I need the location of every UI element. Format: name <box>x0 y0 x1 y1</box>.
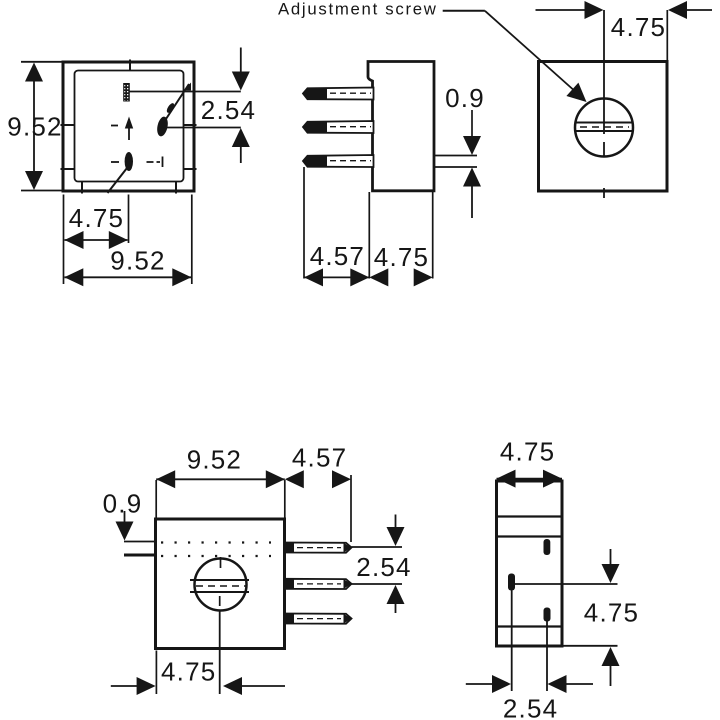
dimension 4.75 bottom: left arrow stem <box>111 685 138 687</box>
dimension 4.57: arrowhead right <box>332 470 351 488</box>
pin middle (black) <box>508 574 515 591</box>
leader line from slot <box>130 91 241 93</box>
dimension 4.75 top-right: left arrow stem <box>536 9 587 11</box>
dimension 0.9: lower stem <box>471 186 473 218</box>
dimension 2.54 bottom: right arrowhead <box>548 675 567 693</box>
pin 1 dashed centerline <box>330 92 371 94</box>
mold tick left edge upper <box>61 124 76 126</box>
pin 1 dashes <box>297 547 341 549</box>
svg-text:4.75: 4.75 <box>69 203 124 233</box>
pin 3 outline <box>303 155 374 167</box>
svg-text:2.54: 2.54 <box>503 694 558 720</box>
dimension 4.75 top-right: right arrow stem <box>686 9 712 11</box>
dimension 9.52 left: arrowhead down <box>25 171 43 190</box>
pin 2 black tip <box>303 122 327 133</box>
mold tick right edge upper <box>183 124 197 126</box>
adjustment screw circle <box>575 99 633 157</box>
dimension 2.54 right: lower line <box>352 583 403 585</box>
dimension 4.75 bottom (top view): left extension <box>63 195 65 285</box>
top view inner body outline <box>75 71 184 182</box>
wiper arm diagonal <box>164 84 189 122</box>
internal line top band 2 <box>497 535 563 537</box>
dimension 2.54 bottom: mid-pin extension <box>511 591 513 692</box>
dimension 9.52 bottom: right extension <box>191 195 193 285</box>
internal line top band 1 <box>497 515 563 517</box>
pin 2 dashes <box>297 583 341 585</box>
dimension 4.57: dim line <box>304 276 369 278</box>
svg-text:4.75: 4.75 <box>374 242 429 272</box>
dimension 2.54 bottom: left arrowhead <box>492 675 511 693</box>
dimension 4.75: arrowhead right <box>414 268 433 286</box>
dimension 2.54 right: down stem <box>395 515 397 531</box>
svg-text:9.52: 9.52 <box>7 112 62 142</box>
dimension 4.57: arrowhead left <box>304 268 323 286</box>
svg-text:9.52: 9.52 <box>110 246 165 276</box>
dimension 2.54: lower stem <box>240 146 242 163</box>
dimension 0.9 right: upper pin line <box>434 155 477 157</box>
dimension 2.54: arrowhead down <box>232 72 250 91</box>
pin 3 black tip <box>344 614 352 624</box>
hidden pin dotted row lower <box>161 555 271 557</box>
middle pin leader line <box>512 583 618 585</box>
pin 3 black tip <box>303 156 327 167</box>
svg-text:4.57: 4.57 <box>310 241 365 271</box>
pin 1 black tip <box>344 543 352 553</box>
center mark stem <box>128 129 130 141</box>
adjustment screw leader arrowhead <box>566 83 586 102</box>
svg-text:4.75: 4.75 <box>584 598 639 628</box>
dimension 4.75: arrowhead left <box>65 231 84 249</box>
dash right of bottom blob <box>147 161 161 163</box>
svg-text:4.57: 4.57 <box>292 443 347 473</box>
dimension 0.9 bottom-left: stem <box>124 511 126 524</box>
dimension 4.75 right: up stem <box>610 665 612 686</box>
left tab lower line <box>124 554 156 557</box>
pin 1 black tip <box>303 88 327 99</box>
pin 2 black root <box>285 579 294 589</box>
dimension 4.75 bottom: left arrowhead <box>137 677 156 695</box>
centerline dash above circle <box>220 557 222 568</box>
dimension 9.52: arrowhead left <box>156 470 175 488</box>
bottom-right body outline <box>497 481 563 646</box>
bottom-left body outline <box>156 519 285 649</box>
dimension 9.52 left: top gauge line <box>21 61 66 63</box>
body-left extension <box>368 192 370 279</box>
screw head view body <box>539 62 668 192</box>
internal line bottom band <box>497 625 563 627</box>
mold tick top edge <box>129 60 131 72</box>
left tab upper line <box>124 541 156 543</box>
dimension 4.75 bottom: right arrowhead <box>223 677 242 695</box>
pin 3 dashed centerline <box>330 160 371 162</box>
pin 2 outline <box>303 121 374 133</box>
pin 3 right outline <box>285 614 352 624</box>
center mark left dash <box>111 125 118 127</box>
mid extension <box>284 480 286 518</box>
body-right extension <box>432 192 434 279</box>
dimension 2.54: arrowhead up <box>232 128 250 147</box>
dimension 2.54 right: arrowhead up <box>387 585 405 604</box>
dimension 4.75: center extension <box>128 195 130 244</box>
svg-text:4.75: 4.75 <box>161 657 216 687</box>
dimension 2.54 bottom: right arrow stem <box>566 683 594 685</box>
pin 2 dashed centerline <box>330 126 371 128</box>
terminal blob bottom <box>125 152 133 171</box>
screw slot upper <box>190 579 249 581</box>
pin 2 black tip <box>344 579 352 589</box>
vertical centerline dash 2 <box>603 188 605 198</box>
adjustment screw leader diagonal <box>485 11 577 93</box>
wiper diagonal bottom <box>108 168 128 193</box>
dimension 4.75 top: dim line <box>497 478 563 480</box>
pin 3 black root <box>285 614 294 624</box>
dimension 9.52 bottom: arrowhead left <box>64 268 83 286</box>
dimension 4.75 bottom: right arrow stem <box>241 685 285 687</box>
dimension 4.75: arrowhead left <box>369 268 388 286</box>
mold tick left edge lower <box>61 168 76 170</box>
center mark up arrow <box>125 117 133 129</box>
dimension 2.54 bottom: left arrow stem <box>466 683 494 685</box>
dimension 0.9: upper stem <box>471 110 473 138</box>
dimension 9.52: arrowhead right <box>266 470 285 488</box>
dimension 9.52 bottom: dim line <box>65 276 192 278</box>
svg-text:9.52: 9.52 <box>187 445 242 475</box>
pin 2 right outline <box>285 579 352 589</box>
dash left of bottom blob <box>111 161 119 163</box>
label leader horizontal <box>443 10 485 12</box>
dimension 0.9 right: lower pin line <box>434 166 477 168</box>
svg-text:0.9: 0.9 <box>445 83 485 113</box>
dimension 4.75 bottom: left extension <box>155 651 157 695</box>
vertical centerline dash 1 <box>603 142 605 157</box>
side view body outline <box>368 62 434 191</box>
dimension 9.52: dim line <box>156 478 285 480</box>
dimension 4.75 right: down stem <box>610 549 612 566</box>
bottom edge extension right <box>562 645 618 647</box>
hidden pin dotted row upper <box>161 541 271 543</box>
right extension <box>350 475 352 542</box>
dimension 9.52 left: arrowhead up <box>25 63 43 82</box>
svg-text:2.54: 2.54 <box>356 552 411 582</box>
dimension 4.75 top-right: right extension <box>666 10 668 61</box>
leader line from terminal blob <box>166 127 241 129</box>
dimension 4.75 top-right: left arrowhead <box>585 1 604 19</box>
dimension 4.57/4.75 bottom: pin-tip extension <box>303 167 305 279</box>
screw circle bottom-left view <box>195 559 247 611</box>
mold tick bottom edge right <box>175 181 177 194</box>
dimension 2.54 right: up stem <box>395 603 397 613</box>
svg-text:4.75: 4.75 <box>500 437 555 467</box>
mold tick right edge lower <box>183 168 197 170</box>
svg-text:Adjustment screw: Adjustment screw <box>278 0 438 19</box>
dimension 9.52 left: bottom gauge line <box>21 190 66 192</box>
cross tick right <box>162 157 164 168</box>
dimension 9.52/4.57 top: left extension <box>155 480 157 518</box>
dimension 2.54 right: upper line <box>352 546 403 548</box>
pin top (black) <box>544 539 551 555</box>
mold tick bottom edge left <box>81 181 83 194</box>
dimension 4.75: arrowhead right <box>109 231 128 249</box>
screw slot lower <box>190 591 249 593</box>
dimension 2.54 bottom: bottom-pin extension <box>546 621 548 691</box>
dimension 9.52 bottom: arrowhead right <box>172 268 191 286</box>
dimension 4.75 top: arrowhead right <box>543 470 562 488</box>
screw slot lower line <box>576 130 633 132</box>
adjustment slot (hatched) <box>124 84 130 102</box>
pin bottom (black) <box>544 608 551 622</box>
dimension 4.75 right: arrowhead down <box>602 564 620 583</box>
dimension 4.57: arrowhead right <box>350 268 369 286</box>
dimension 2.54 top view: upper stem <box>240 48 242 74</box>
svg-text:0.9: 0.9 <box>103 489 143 519</box>
dimension 0.9 bottom-left: arrowhead down <box>116 522 134 541</box>
wiper blob small <box>165 102 175 114</box>
pin 1 black root <box>285 543 294 553</box>
dimension 4.75 top: arrowhead left <box>497 470 516 488</box>
svg-text:2.54: 2.54 <box>201 95 256 125</box>
dimension 4.75 top-right: right arrowhead <box>668 1 687 19</box>
pin 1 outline <box>303 88 374 100</box>
screw slot dashes <box>196 585 246 587</box>
dimension 2.54 right: arrowhead down <box>387 527 405 546</box>
dimension 0.9: arrowhead up <box>463 168 481 187</box>
centerline solid to dim <box>219 610 221 694</box>
vertical centerline upper <box>603 10 605 134</box>
screw slot dashes <box>580 126 629 128</box>
pin 3 dashes <box>297 618 341 620</box>
centerline from circle bottom <box>219 596 221 606</box>
dimension 4.75 right: arrowhead up <box>602 647 620 666</box>
wiper corner mark <box>184 83 192 91</box>
svg-text:4.75: 4.75 <box>611 12 666 42</box>
dimension 4.75: dim line <box>65 239 128 241</box>
dimension 4.57: arrowhead left <box>285 470 304 488</box>
screw slot upper line <box>576 122 633 124</box>
dimension 9.52 left: stem <box>33 80 35 172</box>
dimension 0.9: arrowhead down <box>463 136 481 155</box>
terminal blob right <box>156 116 170 138</box>
top view outer body outline <box>63 62 194 191</box>
pin 1 right outline <box>285 543 352 553</box>
